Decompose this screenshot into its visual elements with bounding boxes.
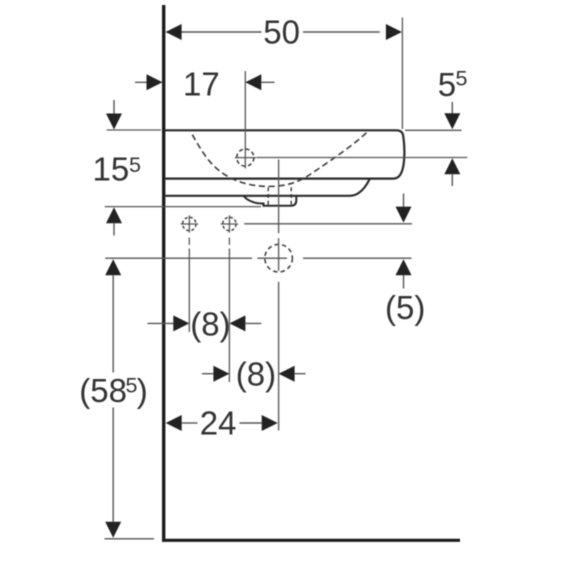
- tap hole line to right: [257, 157, 468, 159]
- wall line: [162, 5, 165, 542]
- mounting hole right dashed circle: [223, 217, 236, 230]
- dimension 15.5 reference line top: [107, 129, 161, 131]
- basin top extension line right: [405, 129, 462, 131]
- siphon dashed circle: [265, 244, 293, 272]
- svg-text:(58: (58: [79, 372, 127, 409]
- siphon horizontal line segments: [105, 257, 252, 259]
- drain trap cover: [244, 197, 296, 206]
- dimension (5) down arrow: [403, 194, 405, 207]
- svg-text:): ): [137, 372, 148, 409]
- mounting holes line to right: [244, 223, 412, 225]
- tap hole crosshair horizontal: [235, 157, 256, 159]
- dimension 50 right arrowhead: [386, 24, 402, 40]
- svg-text:5: 5: [456, 67, 468, 91]
- dimension (58.5) up arrow: [105, 259, 121, 275]
- dimension 15.5 up arrow: [106, 207, 122, 223]
- siphon center line vertical segments: [278, 160, 280, 234]
- floor reference line left: [105, 538, 155, 540]
- dimension 24 left arrowhead: [166, 415, 182, 431]
- tap hole dashed circle: [237, 149, 254, 166]
- dimension 5.5 up arrow: [444, 158, 460, 174]
- dimension 15.5 down arrow: [113, 100, 115, 115]
- floor line: [162, 539, 460, 542]
- dimension 17 right arrow: [245, 74, 261, 90]
- dimension 50 right extension line: [401, 18, 403, 130]
- mounting hole left crosshair: [181, 223, 198, 225]
- tap hole center line vertical: [244, 71, 246, 168]
- dimension (58.5) down arrow: [112, 408, 114, 522]
- mounting hole right crosshair: [221, 223, 238, 225]
- dimension (8) first right arrow: [229, 315, 245, 331]
- svg-text:(8): (8): [236, 356, 276, 393]
- dimension (8) second left arrow: [202, 373, 213, 375]
- mounting reference line: [105, 206, 261, 208]
- dimension 17 left arrow: [135, 81, 148, 83]
- basin underside apron: [165, 179, 369, 196]
- dimension (8) first left arrow: [148, 322, 174, 324]
- bowl inner dashed curve: [192, 131, 367, 186]
- drain funnel dashed left edge: [267, 187, 269, 204]
- svg-text:5: 5: [126, 374, 138, 398]
- drain funnel dashed right edge: [290, 187, 292, 204]
- svg-text:17: 17: [183, 66, 220, 103]
- dimension 5.5 down arrow: [451, 102, 453, 114]
- dimension 24 right arrowhead: [240, 422, 262, 424]
- svg-text:5: 5: [129, 153, 141, 177]
- svg-text:15: 15: [93, 151, 130, 188]
- svg-text:50: 50: [263, 14, 300, 51]
- dimension (8) second right arrow: [279, 366, 295, 382]
- dimension (5) up arrow: [396, 259, 412, 275]
- dimension 50 left arrowhead: [166, 24, 182, 40]
- mounting hole left center line down: [188, 238, 190, 245]
- svg-text:5: 5: [438, 66, 456, 103]
- svg-text:(8): (8): [190, 305, 230, 342]
- svg-text:24: 24: [200, 404, 237, 441]
- mounting hole left dashed circle: [183, 217, 196, 230]
- basin top and right face outline: [165, 130, 404, 178]
- dimension 50 line: [167, 31, 262, 33]
- mounting hole right center line down: [228, 238, 230, 245]
- svg-text:(5): (5): [385, 289, 425, 326]
